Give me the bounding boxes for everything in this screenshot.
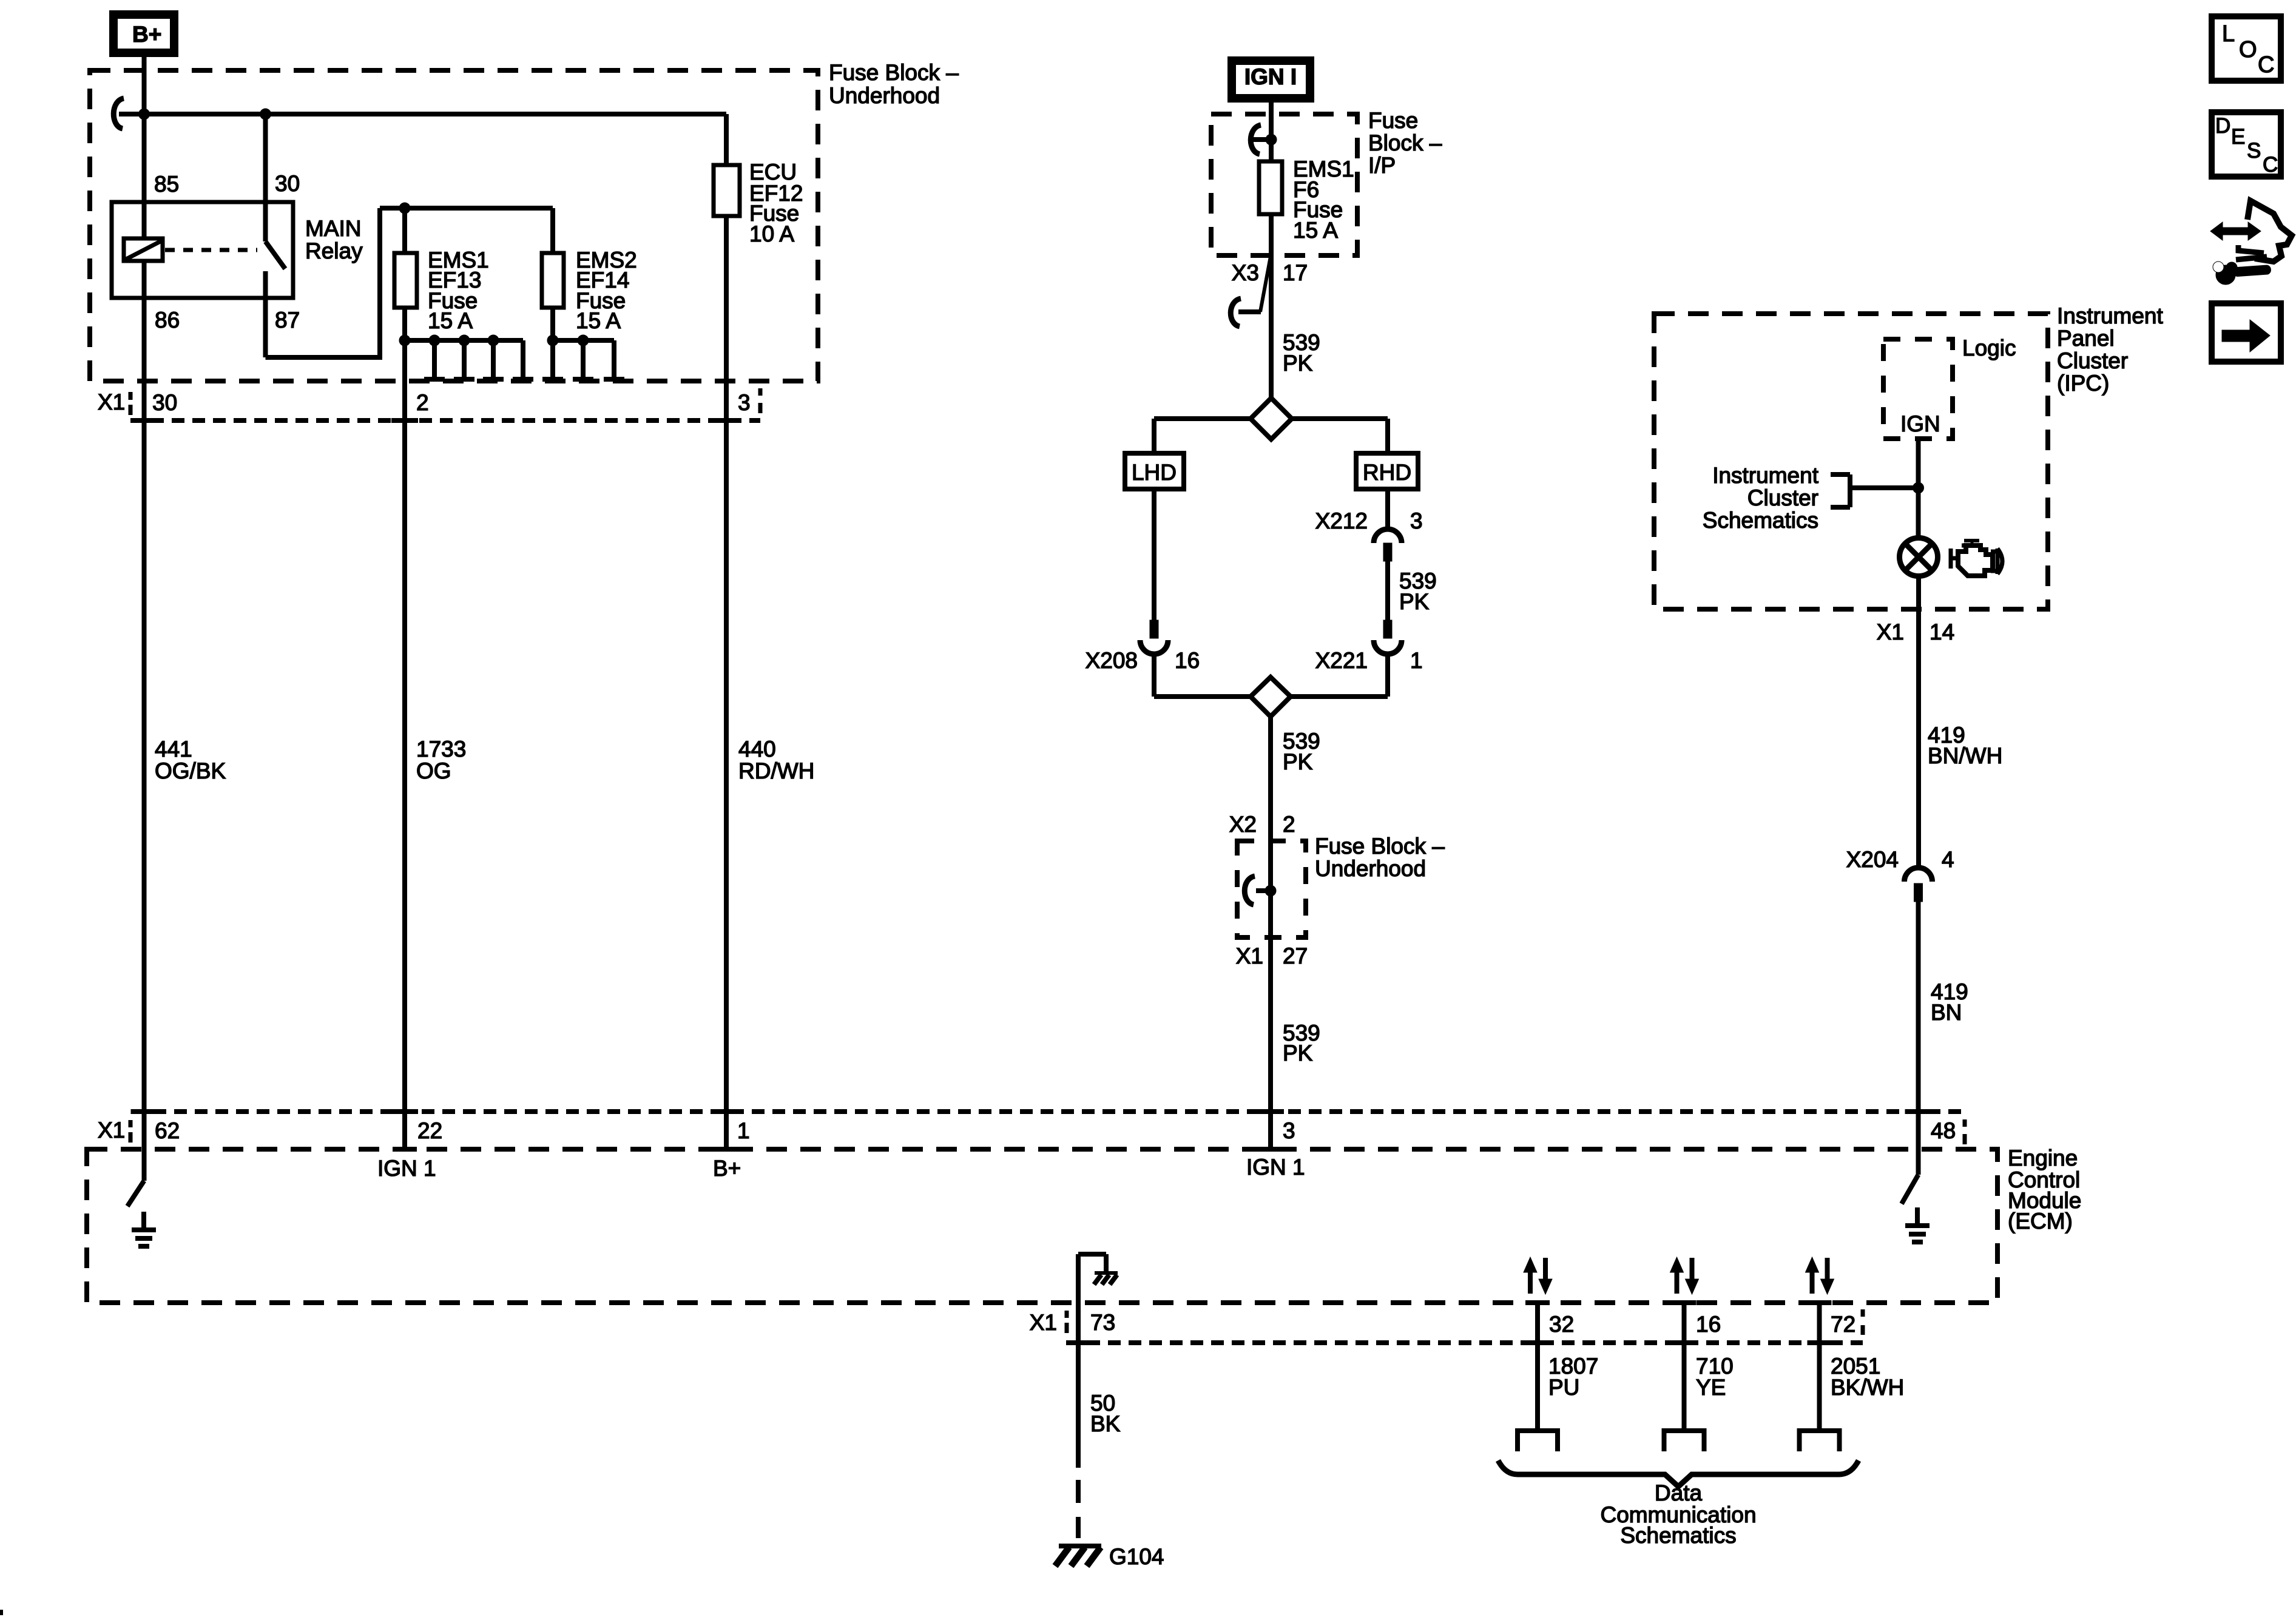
socket terminal pin 32 <box>1518 1431 1558 1451</box>
svg-text:Relay: Relay <box>305 238 363 263</box>
svg-text:X1: X1 <box>1236 944 1263 968</box>
wire EMS2 drop <box>550 208 555 253</box>
ground ECM left <box>141 1212 146 1230</box>
wire fuse to splice <box>1269 214 1274 400</box>
bracket instrument cluster schematics <box>1848 474 1852 507</box>
svg-text:15 A: 15 A <box>428 308 473 333</box>
stub feeds to other circuits (EMS1) <box>432 340 437 377</box>
svg-text:RHD: RHD <box>1363 460 1411 485</box>
svg-text:3: 3 <box>1283 1118 1295 1143</box>
pin stubs at ECM top edge <box>393 1147 417 1152</box>
instrument panel cluster box <box>1654 314 2048 609</box>
RHD box <box>1356 453 1418 489</box>
svg-text:72: 72 <box>1831 1312 1855 1337</box>
ECM internal ground (pin 73) <box>1076 1254 1081 1303</box>
wire IGN logic down <box>1916 439 1921 538</box>
svg-text:C: C <box>2263 153 2278 177</box>
splice diamond lower <box>1154 694 1251 699</box>
svg-text:PU: PU <box>1548 1375 1579 1400</box>
svg-text:B+: B+ <box>132 22 161 47</box>
data wire pin 72 <box>1817 1303 1822 1431</box>
svg-text:Block –: Block – <box>1368 130 1442 155</box>
svg-text:OG: OG <box>416 758 451 783</box>
svg-text:X1: X1 <box>1030 1310 1057 1335</box>
svg-text:PK: PK <box>1283 351 1313 376</box>
svg-text:Underhood: Underhood <box>1315 856 1426 881</box>
svg-text:IGN 1: IGN 1 <box>377 1156 436 1181</box>
internal clip I/P <box>1251 125 1261 154</box>
svg-text:BK/WH: BK/WH <box>1831 1375 1904 1400</box>
svg-text:IGN: IGN <box>1900 411 1940 436</box>
relay MAIN Relay box <box>112 202 293 298</box>
ground ECM right <box>1915 1207 1920 1226</box>
svg-text:X1: X1 <box>1877 619 1904 644</box>
svg-text:LHD: LHD <box>1132 460 1177 485</box>
svg-text:Cluster: Cluster <box>1747 485 1818 510</box>
relay switch wire from pin 30 <box>263 114 268 241</box>
wire LHD branch <box>1152 489 1156 620</box>
svg-text:2: 2 <box>416 390 429 415</box>
svg-text:PK: PK <box>1283 749 1313 774</box>
svg-text:X221: X221 <box>1315 648 1368 673</box>
svg-text:S: S <box>2247 139 2261 163</box>
svg-text:Schematics: Schematics <box>1703 508 1818 533</box>
svg-text:PK: PK <box>1399 589 1430 614</box>
data wire pin 16 <box>1682 1303 1687 1431</box>
svg-text:1: 1 <box>1410 648 1423 673</box>
svg-text:IGN 1: IGN 1 <box>1246 1155 1305 1180</box>
svg-text:C: C <box>2258 52 2274 78</box>
svg-text:4: 4 <box>1942 847 1954 872</box>
svg-text:48: 48 <box>1931 1118 1956 1143</box>
fuse block I/P box <box>1211 114 1357 255</box>
svg-text:BN/WH: BN/WH <box>1928 743 2002 768</box>
svg-text:441: 441 <box>155 737 192 761</box>
svg-text:440: 440 <box>738 737 776 761</box>
LHD box <box>1125 453 1184 489</box>
svg-text:1: 1 <box>737 1118 750 1143</box>
svg-text:Fuse: Fuse <box>1368 108 1418 133</box>
svg-text:PK: PK <box>1283 1041 1313 1065</box>
fuse block underhood box <box>90 70 818 381</box>
svg-text:Logic: Logic <box>1962 336 2016 360</box>
fuse EMS1 EF13 15A <box>394 253 417 308</box>
page corner artifact mark <box>0 1610 3 1615</box>
brace data communication <box>1498 1460 1859 1487</box>
wire EMS1 output bus <box>402 308 407 340</box>
wire 539 PK middle <box>1268 717 1273 841</box>
svg-text:10 A: 10 A <box>749 221 794 246</box>
data wire pin 32 <box>1535 1303 1540 1431</box>
svg-text:3: 3 <box>1410 508 1423 533</box>
svg-text:15 A: 15 A <box>1293 218 1338 243</box>
svg-text:E: E <box>2231 125 2245 149</box>
svg-text:BN: BN <box>1931 1000 1962 1025</box>
svg-text:22: 22 <box>417 1118 442 1143</box>
svg-text:MAIN: MAIN <box>305 216 362 241</box>
chassis ground pin 73 <box>1095 1271 1118 1275</box>
fuse EMS1 F6 15A <box>1259 161 1282 214</box>
ground G104 <box>1059 1544 1101 1548</box>
svg-text:30: 30 <box>152 390 177 415</box>
svg-text:Underhood: Underhood <box>829 83 940 108</box>
svg-text:X1: X1 <box>98 390 125 414</box>
relay coil <box>124 238 163 261</box>
svg-text:27: 27 <box>1283 944 1308 968</box>
svg-text:I/P: I/P <box>1368 153 1396 178</box>
relay switch fixed contact <box>263 271 268 357</box>
pin ticks ECM lower row <box>1066 1340 1090 1345</box>
svg-text:O: O <box>2239 37 2257 62</box>
svg-text:Cluster: Cluster <box>2057 348 2128 373</box>
pin ticks X1 row <box>131 418 158 423</box>
fuse EMS2 EF14 15A <box>542 253 564 308</box>
svg-text:86: 86 <box>155 308 180 333</box>
svg-text:3: 3 <box>738 390 751 415</box>
fuse ECU EF12 10A <box>724 114 729 165</box>
svg-text:Instrument: Instrument <box>2057 303 2164 328</box>
svg-text:RD/WH: RD/WH <box>738 758 814 783</box>
svg-text:Data: Data <box>1655 1480 1703 1505</box>
svg-text:X1: X1 <box>98 1118 125 1143</box>
engine icon (MIL) <box>1951 541 2002 576</box>
relay coil-to-switch dashed link <box>165 248 257 252</box>
svg-text:30: 30 <box>275 171 300 196</box>
splice diamond upper <box>1251 398 1292 439</box>
svg-text:16: 16 <box>1175 648 1200 673</box>
svg-text:Fuse Block –: Fuse Block – <box>829 60 959 85</box>
svg-text:16: 16 <box>1696 1312 1721 1337</box>
svg-text:17: 17 <box>1283 260 1308 285</box>
socket terminal pin 16 <box>1664 1431 1704 1451</box>
wire 419 BN <box>1916 902 1921 1175</box>
connector X208 pin 16 <box>1150 620 1158 638</box>
relay switch blade <box>266 241 286 269</box>
svg-text:14: 14 <box>1930 619 1954 644</box>
svg-text:X204: X204 <box>1846 847 1899 872</box>
wire LHD/RHD bus <box>1154 416 1251 421</box>
svg-text:87: 87 <box>275 308 300 333</box>
ECM internal switch to ground (pin 48) <box>1902 1175 1919 1204</box>
svg-text:73: 73 <box>1090 1310 1115 1335</box>
svg-text:Panel: Panel <box>2057 326 2115 351</box>
icon LOC box <box>2212 16 2281 81</box>
svg-text:85: 85 <box>154 172 179 197</box>
engine control module box <box>87 1149 1997 1303</box>
svg-text:B+: B+ <box>713 1156 741 1181</box>
pin ticks ECM X1 row <box>131 1109 158 1114</box>
fuse block underhood (pass-through) box <box>1237 841 1306 937</box>
wire 440 inside block <box>724 216 729 1149</box>
svg-text:62: 62 <box>155 1118 180 1143</box>
svg-text:X2: X2 <box>1229 812 1257 837</box>
svg-text:(IPC): (IPC) <box>2057 371 2109 396</box>
power feed B+ terminal <box>113 15 174 53</box>
internal clip at B+ bus <box>113 98 124 129</box>
indicator lamp <box>1900 538 1938 576</box>
svg-text:Engine: Engine <box>2008 1146 2078 1170</box>
logic box <box>1883 339 1953 439</box>
svg-text:X3: X3 <box>1232 260 1259 285</box>
wire 50 BK <box>1076 1303 1081 1468</box>
socket terminal pin 72 <box>1800 1431 1840 1451</box>
node junction EMS1 tap <box>399 203 410 214</box>
icon forward arrow box <box>2212 303 2281 362</box>
svg-text:OG/BK: OG/BK <box>155 758 226 783</box>
wire EMS1 drop <box>402 208 407 253</box>
svg-text:(ECM): (ECM) <box>2008 1209 2073 1234</box>
wire EMS2 output bus <box>550 308 555 340</box>
wire RHD branch <box>1385 489 1390 527</box>
wire pin87 to fuse bus <box>266 355 380 360</box>
svg-text:BK: BK <box>1090 1411 1121 1436</box>
svg-text:15 A: 15 A <box>576 308 621 333</box>
svg-text:YE: YE <box>1696 1375 1726 1400</box>
wire through small block <box>1268 841 1273 1149</box>
wire B+ vertical feed <box>142 57 147 238</box>
wire IGN I feed <box>1269 103 1274 161</box>
svg-text:G104: G104 <box>1109 1544 1164 1569</box>
svg-text:32: 32 <box>1549 1312 1574 1337</box>
wire lamp to X1 14 <box>1916 576 1921 867</box>
icon service tools <box>2236 201 2292 262</box>
svg-text:1733: 1733 <box>416 737 466 761</box>
svg-text:X212: X212 <box>1315 508 1368 533</box>
icon DESC box <box>2212 112 2281 177</box>
node junction bus/relay30 <box>260 109 271 120</box>
connector X221 pin 1 <box>1383 620 1392 638</box>
svg-text:2: 2 <box>1283 812 1295 837</box>
ECM internal switch to ground (pin 62) <box>142 1149 147 1181</box>
connector X1 ECM row <box>133 1109 1965 1114</box>
svg-text:Instrument: Instrument <box>1712 463 1819 488</box>
wire 1733 down from EMS1 <box>402 340 407 1149</box>
wire bus to ECU fuse <box>144 112 727 116</box>
stub feeds to other circuits (EMS2) <box>550 340 555 377</box>
power feed IGN I terminal <box>1232 61 1310 98</box>
svg-text:L: L <box>2222 21 2235 47</box>
svg-text:Schematics: Schematics <box>1620 1523 1736 1548</box>
connector X1 ECM lower row <box>1067 1340 1863 1345</box>
node junction cluster tap <box>1913 482 1924 493</box>
node junction B+/bus <box>139 109 150 120</box>
svg-text:X208: X208 <box>1086 648 1138 673</box>
svg-text:D: D <box>2215 114 2230 138</box>
svg-text:Fuse Block –: Fuse Block – <box>1315 834 1445 859</box>
wire to cluster bracket <box>1850 485 1919 490</box>
connector X212 pin 3 <box>1374 529 1402 543</box>
internal clip small block <box>1244 876 1255 905</box>
svg-text:IGN I: IGN I <box>1244 64 1297 89</box>
wire 539 PK right <box>1385 561 1390 620</box>
